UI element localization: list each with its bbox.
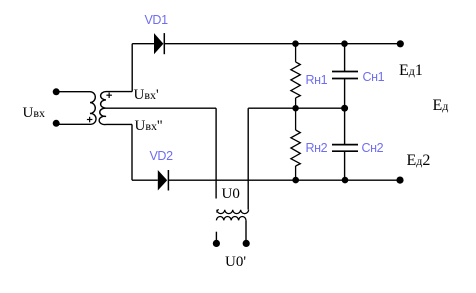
node: mid rail / C junction	[341, 105, 348, 112]
diode VD1	[154, 33, 164, 54]
wire: center tap vertical drop (crosses bottom rail)	[215, 108, 217, 198]
label Ед	[433, 97, 449, 115]
node: mid rail / R junction	[292, 105, 298, 111]
node: terminal Ед1	[397, 40, 404, 47]
wire: input bottom lead	[56, 123, 90, 125]
wire: corner up to top rail	[131, 44, 133, 92]
transformer T2 (U0') secondary winding	[216, 216, 246, 220]
node: input terminal top	[53, 88, 60, 95]
wire: center tap horizontal	[106, 107, 216, 109]
wire: top rail (anode side of VD1)	[132, 43, 154, 45]
label VD2	[150, 149, 173, 163]
wire: mid node horizontal (to R and C midpoints)	[248, 107, 344, 109]
node: top rail / C junction	[341, 40, 348, 47]
node: bottom rail / R junction	[292, 177, 299, 184]
polarity mark + (secondary)	[106, 93, 112, 99]
label Сн1	[363, 70, 385, 84]
wire: mid node vertical drop (crosses bottom rail)	[247, 108, 249, 209]
wire: bottom rail (cathode side of VD2)	[168, 179, 400, 181]
label Rн1	[306, 73, 328, 87]
node: terminal Ед2	[396, 177, 403, 184]
label Uвх''	[135, 118, 163, 135]
label VD1	[145, 13, 168, 27]
label Uвх	[23, 105, 46, 122]
wire: secondary bottom (Uвх'') to corner	[106, 123, 132, 125]
label Сн2	[362, 141, 384, 155]
transformer T2 (U0) primary winding	[217, 210, 249, 214]
wire: secondary top (Uвх') to corner	[106, 91, 132, 93]
label Uвх'	[134, 87, 159, 104]
polarity mark + (primary)	[87, 117, 93, 123]
node: bottom rail / C junction	[342, 177, 349, 184]
resistor Rн1	[291, 44, 300, 109]
wire: VD2 anode lead	[132, 179, 158, 181]
wire: T2 secondary left lead stub	[215, 232, 217, 243]
label Ед2	[407, 152, 431, 170]
capacitor Сн2	[332, 108, 358, 180]
transformer T1 primary winding	[90, 92, 96, 125]
node: terminal U0' right	[243, 240, 250, 247]
label Ед1	[399, 62, 423, 80]
label Rн2	[306, 141, 328, 155]
node: terminal U0' left	[213, 240, 220, 247]
resistor Rн2	[291, 108, 300, 180]
node: top rail / R junction	[292, 40, 299, 47]
capacitor Сн1	[332, 44, 358, 109]
wire: corner down to VD2 level	[131, 124, 133, 180]
wire: top rail (cathode side of VD1)	[164, 43, 400, 45]
transformer T1 secondary winding (center-tapped)	[99, 92, 106, 125]
wire: T2 secondary right lead down	[245, 220, 247, 243]
label U0	[222, 186, 240, 203]
label U0'	[225, 254, 246, 271]
wire: input top lead	[56, 91, 90, 93]
node: input terminal bottom	[53, 120, 60, 127]
diode VD2	[158, 170, 169, 191]
